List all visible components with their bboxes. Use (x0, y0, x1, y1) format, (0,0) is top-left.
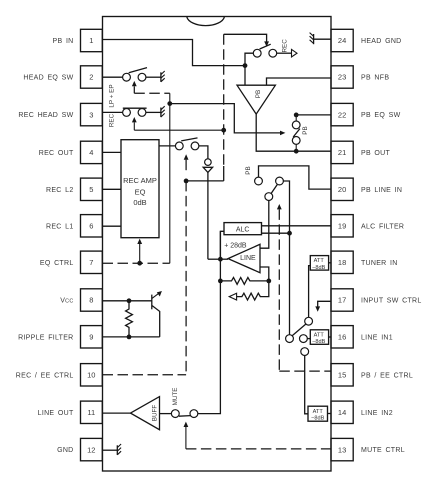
svg-text:PB OUT: PB OUT (361, 150, 390, 157)
svg-text:17: 17 (338, 296, 346, 305)
wire ATT18 down to selector (309, 266, 311, 318)
svg-text:15: 15 (338, 371, 346, 380)
svg-text:ATT: ATT (314, 332, 325, 338)
wire common to LINE amp input (260, 201, 269, 249)
wire REC AMP output to switch (159, 145, 175, 147)
wire pin2 HEAD EQ SW (103, 76, 123, 78)
svg-text:12: 12 (87, 445, 95, 454)
REC control arrow into switch (224, 34, 267, 41)
switch S-RECHEAD arm (closed) (123, 107, 147, 109)
block REC AMP EQ 0dB (121, 140, 159, 238)
wire node A to PB amp input (244, 66, 246, 86)
transistor Q1 emitter w/ arrow (152, 293, 160, 299)
pin 15 box (331, 364, 353, 386)
pin 12 box (81, 438, 103, 460)
transistor Q1 collector (152, 305, 160, 337)
wire pin8 Vcc (103, 300, 152, 302)
svg-text:21: 21 (338, 148, 346, 157)
svg-text:PB LINE IN: PB LINE IN (361, 187, 402, 194)
wire REC switch to arrow (277, 52, 292, 54)
svg-text:RIPPLE FILTER: RIPPLE FILTER (18, 334, 73, 341)
pin 6 box (81, 215, 103, 237)
pin 13 box (331, 438, 353, 460)
wire switch to buffer (199, 146, 208, 159)
REC direction arrow (open) (292, 49, 298, 57)
wire ALC sense tap (220, 231, 224, 259)
svg-text:REC: REC (282, 39, 289, 53)
selector common contact (265, 193, 273, 201)
switch S-RECHEAD contacts (123, 109, 131, 117)
resistor R2 to ALC attenuator (237, 281, 269, 300)
switch S-PBEQ arm (293, 129, 300, 137)
selector S-IN common contact (286, 335, 294, 343)
svg-text:−8dB: −8dB (312, 339, 325, 345)
EQ control arrow to head EQ switch (132, 81, 137, 86)
wire EQ ctrl riser (169, 104, 171, 264)
pin 3 box (81, 103, 103, 125)
chassis ground symbol pin12 (116, 445, 118, 455)
wire pin15 PB/EE CTRL dashed (279, 370, 331, 372)
pin 14 box (331, 401, 353, 423)
buffer B1 (emitter follower) (205, 159, 212, 166)
switch S-PBEQ contacts (295, 115, 297, 121)
svg-text:EQ: EQ (135, 188, 146, 197)
svg-text:ATT: ATT (314, 258, 325, 264)
svg-text:PB: PB (245, 166, 252, 174)
wire mute to BUFF (160, 413, 172, 415)
pin 22 box (331, 103, 353, 125)
pin 18 box (331, 251, 353, 273)
wire pin11 LINE OUT (103, 412, 131, 414)
svg-text:LP + EP: LP + EP (109, 84, 116, 107)
switch S-REC arm (260, 44, 271, 49)
pin 9 box (81, 326, 103, 348)
wire to chassis (146, 111, 161, 113)
svg-text:BUFF: BUFF (152, 405, 159, 422)
svg-text:HEAD GND: HEAD GND (361, 38, 402, 45)
svg-text:9: 9 (89, 333, 93, 342)
selector S-IN line1 contact (300, 335, 308, 343)
wire ALC to pin19 ALC FILTER (262, 225, 332, 227)
svg-text:REC: REC (109, 113, 116, 127)
svg-text:LINE: LINE (240, 255, 256, 262)
pin 24 box (331, 29, 353, 51)
svg-text:INPUT SW CTRL: INPUT SW CTRL (361, 298, 422, 305)
node A junction (243, 63, 248, 68)
svg-text:−8dB: −8dB (311, 416, 324, 422)
svg-text:LINE IN2: LINE IN2 (361, 410, 393, 417)
svg-text:LINE OUT: LINE OUT (38, 410, 74, 417)
node REC bus to pin10 (184, 179, 189, 184)
pin 4 box (81, 141, 103, 163)
selector arm (271, 185, 277, 194)
REC control bus dashed vertical (223, 34, 225, 166)
EQ control arrow into REC AMP (139, 244, 141, 263)
svg-text:14: 14 (338, 408, 346, 417)
svg-text:2: 2 (89, 73, 93, 82)
node EQ ctrl (137, 261, 142, 266)
svg-text:1: 1 (89, 36, 93, 45)
svg-text:10: 10 (87, 371, 95, 380)
wire line2 contact to ATT pin14 (305, 356, 308, 414)
op-amp BUFF (131, 397, 160, 430)
resistor R1 feedback (220, 278, 268, 285)
switch S-MUTE arm (179, 415, 191, 418)
switch S-MUTE contacts (190, 410, 198, 418)
svg-text:MUTE: MUTE (172, 388, 179, 406)
wire pin6 REC L1 (103, 225, 122, 227)
svg-text:PB NFB: PB NFB (361, 75, 389, 82)
svg-text:EQ CTRL: EQ CTRL (40, 260, 74, 267)
MUTE control arrow (184, 422, 189, 427)
svg-text:13: 13 (338, 445, 346, 454)
svg-text:24: 24 (338, 36, 346, 45)
svg-text:5: 5 (89, 185, 93, 194)
selector contact rec side (276, 177, 284, 185)
svg-text:TUNER IN: TUNER IN (361, 260, 398, 267)
wire pin3 REC HEAD SW (103, 111, 123, 113)
chassis ground symbol pin2 switch (160, 72, 162, 82)
switch S-REC (record head switch) contacts (253, 49, 261, 57)
pin 21 box (331, 141, 353, 163)
svg-text:REC / EE CTRL: REC / EE CTRL (16, 372, 74, 379)
svg-text:ATT: ATT (313, 409, 324, 415)
wire pin7 EQ CTRL dashed (103, 262, 170, 264)
block ATT pin14 (308, 406, 328, 421)
wire pin10 REC/EE CTRL dashed (103, 374, 187, 376)
op-amp LINE +28dB (228, 244, 260, 272)
svg-text:REC HEAD SW: REC HEAD SW (18, 112, 73, 119)
svg-text:20: 20 (338, 185, 346, 194)
svg-text:23: 23 (338, 73, 346, 82)
svg-text:PB EQ SW: PB EQ SW (361, 112, 401, 119)
EQ control branch to PB EQ switch (170, 104, 280, 133)
svg-text:22: 22 (338, 110, 346, 119)
switch S-RECOUT arm (open) (181, 138, 197, 141)
block ALC (224, 223, 262, 235)
wire node A to REC switch (245, 53, 253, 65)
chassis ground symbol pin24 (313, 34, 315, 44)
svg-text:6: 6 (89, 222, 93, 231)
wire pin18 TUNER IN via ATT (310, 256, 328, 271)
pin 5 box (81, 178, 103, 200)
wire pin24 HEAD GND (314, 38, 331, 40)
svg-text:11: 11 (87, 408, 95, 417)
wire LINE amp lower terminal (260, 267, 269, 281)
svg-text:REC L1: REC L1 (46, 223, 74, 230)
svg-text:7: 7 (89, 258, 93, 267)
PB/EE control arrow (277, 204, 282, 209)
svg-text:REC L2: REC L2 (46, 187, 74, 194)
svg-text:MUTE CTRL: MUTE CTRL (361, 447, 405, 454)
svg-text:PB / EE CTRL: PB / EE CTRL (361, 372, 413, 379)
selector S-IN line2 contact (301, 348, 309, 356)
wire pin22 PB EQ SW (296, 114, 331, 116)
svg-text:ALC: ALC (236, 226, 250, 233)
node EQ ctrl junction (167, 101, 172, 106)
svg-text:0dB: 0dB (133, 198, 146, 207)
wire pin20 PB LINE IN (259, 166, 332, 189)
node junction pin22 (294, 113, 299, 118)
svg-text:HEAD EQ SW: HEAD EQ SW (23, 75, 73, 82)
svg-text:19: 19 (338, 222, 346, 231)
op-amp PB (237, 85, 275, 114)
svg-text:−8dB: −8dB (312, 265, 325, 271)
wire ALC detector input (262, 232, 290, 234)
switch S-HEADEQ contacts (123, 73, 131, 81)
switch S-HEADEQ arm (open) (129, 68, 147, 73)
wire PB amp output to pin21 (256, 114, 296, 151)
pin 8 box (81, 289, 103, 311)
wire pin21 PB OUT (296, 150, 331, 152)
selector S-IN tuner contact (305, 317, 313, 325)
pin 1 box (81, 29, 103, 51)
wire pin23 PB NFB to PB amp (267, 78, 332, 85)
IC body U1 (103, 17, 332, 472)
pin 2 box (81, 66, 103, 88)
wire output node column (198, 231, 221, 413)
svg-text:16: 16 (338, 333, 346, 342)
pin 19 box (331, 215, 353, 237)
REC control arrow to rec head switch (132, 117, 137, 122)
svg-text:ALC FILTER: ALC FILTER (361, 223, 404, 230)
REC control arrow to rec out switch (184, 154, 189, 159)
pin 11 box (81, 401, 103, 423)
svg-text:GND: GND (57, 447, 73, 454)
wire pin12 GND (103, 449, 118, 451)
switch S-RECOUT contacts (175, 142, 183, 150)
wire pin1 PB IN to node A (103, 40, 246, 66)
wire pin13 MUTE CTRL dashed (186, 448, 331, 450)
wire pin4 REC OUT (103, 151, 122, 153)
svg-text:18: 18 (338, 258, 346, 267)
transistor Q1 base bar (151, 295, 153, 310)
selector S-IN arm (292, 324, 306, 336)
svg-text:PB: PB (302, 126, 309, 134)
wire buffer output down to line node (207, 172, 209, 259)
IC index notch (187, 17, 225, 26)
svg-text:8: 8 (89, 296, 93, 305)
pin 16 box (331, 326, 353, 348)
INPUT SW control arrow pin17 (318, 301, 331, 306)
ALC attenuator arrow (open) (229, 293, 236, 300)
svg-text:4: 4 (89, 148, 93, 157)
chassis ground symbol pin3 switch (160, 108, 162, 118)
svg-text:PB IN: PB IN (53, 38, 74, 45)
wire to chassis (146, 76, 161, 78)
wire pin5 REC L2 (103, 188, 122, 190)
pin 23 box (331, 66, 353, 88)
svg-text:LINE IN1: LINE IN1 (361, 334, 393, 341)
svg-text:+ 28dB: + 28dB (224, 242, 247, 249)
svg-text:REC OUT: REC OUT (39, 150, 74, 157)
resistor R3 ripple (126, 301, 133, 337)
selector S-PBLINE contact PB (255, 177, 263, 185)
svg-text:PB: PB (255, 90, 262, 98)
svg-text:3: 3 (89, 110, 93, 119)
pin 17 box (331, 289, 353, 311)
svg-text:VCC: VCC (60, 298, 73, 305)
wire rec contact to lower selector (283, 181, 289, 335)
wire pin9 RIPPLE FILTER (103, 336, 160, 338)
node junction pin21 (295, 144, 297, 151)
pin 7 box (81, 251, 103, 273)
wire LINE amp output node (220, 258, 228, 260)
svg-text:REC AMP: REC AMP (123, 176, 157, 185)
node REC bus junction (221, 128, 226, 133)
block ATT pin16 (307, 338, 310, 340)
pin 20 box (331, 178, 353, 200)
pin 10 box (81, 364, 103, 386)
